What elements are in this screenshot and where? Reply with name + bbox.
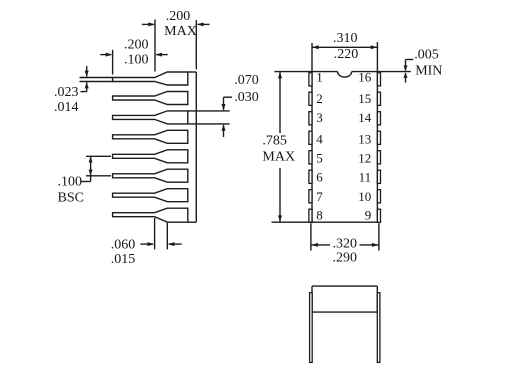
svg-text:16: 16	[358, 70, 372, 85]
svg-text:MIN: MIN	[415, 64, 442, 79]
svg-text:.030: .030	[234, 90, 259, 105]
svg-text:3: 3	[316, 110, 323, 125]
svg-text:11: 11	[359, 170, 372, 185]
svg-text:MAX: MAX	[262, 150, 295, 165]
svg-text:.200: .200	[124, 38, 149, 53]
svg-text:.060: .060	[111, 238, 136, 253]
svg-text:9: 9	[365, 208, 372, 223]
svg-text:.100: .100	[58, 175, 83, 190]
svg-text:.014: .014	[54, 100, 79, 115]
svg-text:MAX: MAX	[164, 24, 197, 39]
svg-text:.290: .290	[332, 250, 357, 265]
svg-text:.200: .200	[166, 9, 191, 24]
svg-text:.015: .015	[111, 252, 136, 267]
svg-text:1: 1	[316, 70, 323, 85]
svg-text:4: 4	[316, 132, 323, 147]
svg-text:10: 10	[358, 189, 371, 204]
svg-text:14: 14	[358, 110, 372, 125]
svg-text:12: 12	[358, 151, 371, 166]
svg-text:7: 7	[316, 189, 323, 204]
svg-text:.100: .100	[124, 53, 149, 68]
svg-text:6: 6	[316, 170, 323, 185]
svg-text:13: 13	[358, 132, 371, 147]
svg-text:.005: .005	[414, 48, 439, 63]
svg-text:5: 5	[316, 151, 323, 166]
svg-text:.310: .310	[333, 31, 358, 46]
svg-text:.220: .220	[334, 47, 359, 62]
svg-text:.785: .785	[262, 133, 287, 148]
svg-text:.070: .070	[234, 73, 259, 88]
svg-text:15: 15	[358, 91, 371, 106]
svg-text:.023: .023	[54, 85, 79, 100]
svg-text:8: 8	[316, 208, 323, 223]
svg-text:2: 2	[316, 91, 323, 106]
svg-text:.320: .320	[332, 236, 357, 251]
svg-text:BSC: BSC	[58, 191, 84, 206]
